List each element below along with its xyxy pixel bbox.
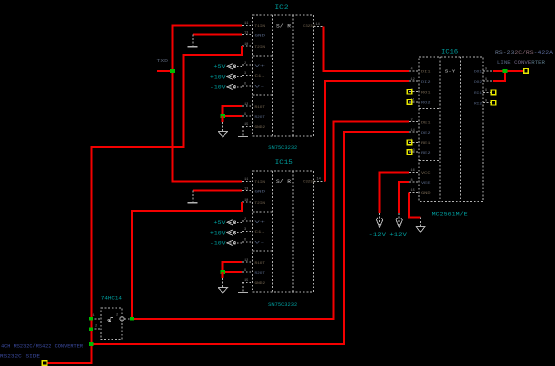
IC2 right column top text bbox=[303, 25, 316, 29]
svg-text:2: 2 bbox=[116, 314, 118, 318]
wire IC16 VEE pin to +12V arrow bbox=[399, 182, 409, 213]
IC15 pin number 12 bbox=[244, 259, 248, 263]
supply arrow +10V at IC15 bbox=[227, 230, 242, 235]
IC2 internal column divider 1 bbox=[272, 15, 274, 136]
label IC16 value MC2561M/E bbox=[432, 211, 469, 218]
ground triangle at IC15 bbox=[218, 272, 227, 293]
svg-text:+10V: +10V bbox=[210, 230, 226, 236]
supply arrow -12V bbox=[376, 213, 382, 227]
ground bar at IC2 GND2 pin bbox=[238, 126, 248, 136]
IC16 left pin stub RE1 bbox=[409, 141, 419, 143]
IC2 left pin stub R1OT bbox=[242, 105, 252, 107]
IC16 pin name RE2 bbox=[421, 152, 431, 156]
IC15 left pin stub V- bbox=[242, 241, 252, 243]
IC16 pin name DE1 bbox=[421, 121, 431, 125]
svg-text:6: 6 bbox=[244, 239, 246, 243]
IC16 right pin stub DO2 bbox=[483, 80, 493, 82]
svg-text:V-: V- bbox=[255, 86, 266, 90]
IC16 S-Y block text bbox=[445, 68, 456, 74]
label 74HC14 bbox=[101, 295, 123, 302]
svg-text:3: 3 bbox=[244, 72, 246, 76]
IC2 pin number 9 bbox=[244, 113, 246, 117]
svg-text:2: 2 bbox=[95, 325, 97, 329]
svg-text:12: 12 bbox=[244, 259, 248, 263]
junction DO1/DO2 bbox=[503, 69, 508, 73]
IC15 left pin stub C1- bbox=[242, 230, 252, 232]
wire IC15 R2OT to junction bbox=[223, 271, 243, 273]
svg-text:RI2: RI2 bbox=[474, 103, 482, 107]
IC15 left pin stub R1OT bbox=[242, 261, 252, 263]
svg-text:T2IN: T2IN bbox=[255, 46, 266, 50]
gate pin number 1 bbox=[93, 314, 95, 318]
svg-text:14: 14 bbox=[316, 23, 320, 27]
wire net DO2 (IC16 pin DO2 to DO1 net) bbox=[493, 71, 505, 81]
ground bar symbol at IC2 bbox=[188, 35, 198, 47]
svg-text:RE2: RE2 bbox=[421, 152, 431, 156]
open pad on IC16 left pin y=142.3 bbox=[407, 140, 412, 145]
svg-text:RS232C SIDE: RS232C SIDE bbox=[0, 353, 40, 359]
IC2 left pin stub T1IN bbox=[242, 24, 252, 26]
IC16 right pin stub DO1 bbox=[483, 70, 493, 72]
IC U15 box (SN75C3232 transceiver) bbox=[253, 171, 314, 292]
IC16 pin name RO1 bbox=[421, 92, 431, 96]
IC16 right pin name DO1 bbox=[474, 71, 482, 75]
IC16 pin number 13 bbox=[411, 149, 415, 153]
IC16 left pin stub DI1 bbox=[409, 70, 419, 72]
svg-text:R1OT: R1OT bbox=[255, 262, 266, 266]
wire IC16 GND pin to ground bbox=[409, 192, 421, 217]
IC16 right pin name DO2 bbox=[474, 81, 482, 85]
svg-text:RE1: RE1 bbox=[421, 142, 431, 146]
IC16 left pin stub DE2 bbox=[409, 131, 419, 133]
IC16 internal column divider 1 bbox=[439, 57, 441, 202]
IC15 pin name R2OT bbox=[255, 272, 266, 276]
supply arrow +5V at IC15 bbox=[227, 220, 242, 225]
svg-text:16: 16 bbox=[411, 169, 415, 173]
svg-text:14: 14 bbox=[317, 178, 321, 182]
IC16 right pin number RI1 bbox=[485, 89, 487, 93]
IC2 pin name C1- bbox=[255, 75, 266, 79]
svg-text:13: 13 bbox=[244, 187, 248, 191]
IC16 pin name VCC bbox=[421, 172, 431, 176]
svg-text:10: 10 bbox=[244, 43, 248, 47]
IC2 pin name T1IN bbox=[255, 25, 266, 29]
svg-text:9: 9 bbox=[485, 78, 487, 82]
IC2 right pin stub DOUT bbox=[314, 26, 324, 28]
junction RX232/RX2 bbox=[89, 342, 94, 346]
IC2 pin number 13 bbox=[244, 31, 248, 35]
IC16 left pin stub RO2 bbox=[409, 101, 419, 103]
svg-text:2: 2 bbox=[411, 118, 413, 122]
junction gate input 2 on RX232 bbox=[89, 328, 93, 332]
label IC2 value SN75C3232 bbox=[268, 145, 297, 151]
wire net RX2 (junction on RX232 to IC16 pin DE2) bbox=[91, 132, 409, 344]
svg-text:IC2: IC2 bbox=[275, 4, 290, 11]
IC15 pin number 3 bbox=[244, 228, 246, 232]
open pad on IC16 left pin y=152.2 bbox=[407, 150, 412, 155]
IC2 pin number 11 bbox=[244, 22, 248, 26]
wire IC15 R1OT to junction bbox=[223, 262, 243, 272]
net label +12V bbox=[389, 232, 407, 238]
svg-text:T2IN: T2IN bbox=[255, 202, 266, 206]
IC15 pin name V- bbox=[255, 242, 266, 246]
IC16 pin name DE2 bbox=[421, 132, 431, 136]
IC2 left pin stub V+ bbox=[242, 64, 252, 66]
IC16 left pin stub RE2 bbox=[409, 151, 419, 153]
svg-text:DI2: DI2 bbox=[421, 81, 431, 85]
ground bar symbol at IC15 bbox=[188, 191, 198, 203]
IC15 pin number 2 bbox=[244, 218, 246, 222]
IC2 pin number 10 bbox=[244, 43, 248, 47]
svg-text:9: 9 bbox=[485, 89, 487, 93]
svg-text:IC16: IC16 bbox=[441, 49, 458, 56]
IC2 pin name R2OT bbox=[255, 116, 266, 120]
open pad on IC16 left pin y=101.8 bbox=[407, 100, 412, 105]
IC16 left pin stub VEE bbox=[409, 181, 419, 183]
svg-text:11: 11 bbox=[244, 22, 248, 26]
supply arrow +12V bbox=[396, 213, 402, 227]
IC16 pin name GND bbox=[421, 192, 431, 196]
open pad on IC16 left pin y=91.7 bbox=[407, 89, 412, 94]
IC15 left pin stub R2OT bbox=[242, 271, 252, 273]
IC2 pin name V+ bbox=[255, 65, 267, 69]
gate pin number 3 bbox=[116, 314, 118, 318]
note text line 2 (bottom left) bbox=[0, 353, 40, 359]
IC16 right pin stub RI1 bbox=[483, 91, 493, 93]
svg-text:DO2: DO2 bbox=[474, 81, 482, 85]
svg-text:R2OT: R2OT bbox=[255, 272, 266, 276]
IC15 right pin number 14 bbox=[317, 178, 321, 182]
IC2 pin number 15 bbox=[244, 123, 248, 127]
IC15 left pin stub T2IN bbox=[242, 201, 252, 203]
net label +5V (IC15) bbox=[214, 220, 226, 226]
svg-text:R1OT: R1OT bbox=[255, 106, 266, 110]
net label TXD bbox=[157, 60, 169, 64]
title text line 2 (top right) bbox=[497, 60, 545, 66]
IC16 left pin stub RO1 bbox=[409, 91, 419, 93]
IC16 internal column divider 2 bbox=[460, 57, 462, 202]
IC16 pin number 3 bbox=[411, 89, 413, 93]
IC16 pin number 14 bbox=[411, 129, 415, 133]
IC2 pin name GND bbox=[255, 34, 267, 38]
IC15 pin number 13 bbox=[244, 187, 248, 191]
junction at IC15 receiver pins bbox=[220, 270, 225, 274]
svg-text:C1-: C1- bbox=[255, 75, 266, 79]
svg-text:SN75C3232: SN75C3232 bbox=[268, 302, 297, 308]
junction at 74HC14 output bbox=[130, 317, 134, 321]
IC15 pin number 6 bbox=[244, 239, 246, 243]
svg-text:RO1: RO1 bbox=[421, 92, 431, 96]
IC2 left pin stub C1- bbox=[242, 74, 252, 76]
svg-text:15: 15 bbox=[411, 189, 415, 193]
IC2 left pin stub R2OT bbox=[242, 115, 252, 117]
IC16 right pin number DO2 bbox=[485, 78, 487, 82]
IC16 pin name RO2 bbox=[421, 102, 431, 106]
net label -12V bbox=[369, 232, 387, 238]
IC16 pin name DI2 bbox=[421, 81, 431, 85]
IC15 internal column divider 2 bbox=[292, 171, 294, 292]
svg-text:C1-: C1- bbox=[255, 231, 266, 235]
svg-text:GND: GND bbox=[421, 192, 431, 196]
net label +10V (IC2) bbox=[210, 74, 226, 80]
IC16 left column row divider 1 bbox=[419, 108, 440, 110]
svg-text:+10V: +10V bbox=[210, 74, 226, 80]
IC15 pin name GND bbox=[255, 190, 267, 194]
svg-text:8: 8 bbox=[411, 179, 413, 183]
supply arrow -10V at IC15 bbox=[227, 240, 242, 245]
junction on TXD stub bbox=[170, 69, 175, 73]
wire TXD label stub bbox=[157, 70, 173, 72]
IC15 right column top text bbox=[303, 181, 316, 185]
svg-text:9: 9 bbox=[485, 68, 487, 72]
supply arrow -10V at IC2 bbox=[227, 84, 242, 89]
IC2 pin number 12 bbox=[244, 103, 248, 107]
IC16 pin number 16 bbox=[411, 169, 415, 173]
IC16 right pin number DO1 bbox=[485, 68, 487, 72]
IC2 left pin stub T2IN bbox=[242, 45, 252, 47]
net label +10V (IC15) bbox=[210, 230, 226, 236]
svg-text:GND: GND bbox=[255, 34, 267, 38]
IC15 pin number 15 bbox=[244, 279, 248, 283]
svg-text:GND2: GND2 bbox=[255, 282, 266, 286]
IC15 pin number 11 bbox=[244, 178, 248, 182]
wire net D1 (IC2 right pin to IC16 pin DI1) bbox=[323, 27, 409, 71]
wire net RX232 (IC2 pin T2IN to pad P1, taps 74HC14 inputs) bbox=[47, 46, 242, 363]
title text line 1 (top right) bbox=[495, 50, 553, 56]
svg-text:6: 6 bbox=[244, 83, 246, 87]
wire net DO1 (IC16 right pin to pad P2) bbox=[493, 70, 524, 72]
IC2 left pin stub GND bbox=[242, 34, 252, 36]
IC16 pin number 4 bbox=[411, 68, 413, 72]
label IC2 reference designator bbox=[275, 4, 290, 11]
IC15 pin name T1IN bbox=[255, 181, 266, 185]
svg-text:-10V: -10V bbox=[210, 85, 226, 91]
IC15 pin name V+ bbox=[255, 221, 267, 225]
IC15 left column row divider 2 bbox=[253, 250, 273, 252]
IC15 left pin stub GND bbox=[242, 190, 252, 192]
svg-text:12: 12 bbox=[411, 78, 415, 82]
IC16 left pin stub GND bbox=[409, 191, 419, 193]
svg-text:+5V: +5V bbox=[214, 64, 226, 70]
IC15 pin name C1- bbox=[255, 231, 266, 235]
wire net TXD (IC2 pin T1IN to IC15 pin T1IN) bbox=[173, 25, 243, 181]
svg-text:13: 13 bbox=[244, 31, 248, 35]
IC16 pin name VEE bbox=[421, 182, 431, 186]
gate input pin stub 1 bbox=[91, 318, 101, 320]
IC2 pin number 6 bbox=[244, 83, 246, 87]
gate output bubble bbox=[120, 317, 124, 321]
svg-text:R2OT: R2OT bbox=[255, 116, 266, 120]
IC15 left pin stub GND2 bbox=[242, 281, 252, 283]
svg-text:TXD: TXD bbox=[157, 60, 169, 64]
gate hysteresis mark bbox=[108, 318, 113, 322]
svg-text:-12V: -12V bbox=[369, 232, 387, 238]
svg-text:DI1: DI1 bbox=[421, 71, 431, 75]
IC16 pin number 1 bbox=[411, 139, 413, 143]
open pad on IC16 right pin y=92.3 bbox=[491, 90, 496, 95]
svg-text:DE2: DE2 bbox=[421, 132, 431, 136]
svg-text:V+: V+ bbox=[255, 221, 267, 225]
svg-text:VCC: VCC bbox=[421, 172, 431, 176]
svg-text:IC15: IC15 bbox=[275, 159, 293, 166]
svg-text:RS-232C/RS-422A: RS-232C/RS-422A bbox=[495, 50, 553, 56]
IC U2 box (SN75C3232 transceiver) bbox=[253, 15, 314, 136]
svg-text:+12V: +12V bbox=[389, 232, 407, 238]
IC16 left pin stub VCC bbox=[409, 171, 419, 173]
IC2 pin name R1OT bbox=[255, 106, 266, 110]
net label -10V (IC15) bbox=[210, 241, 226, 247]
IC15 left pin stub V+ bbox=[242, 220, 252, 222]
IC16 left pin stub DI2 bbox=[409, 80, 419, 82]
IC16 pin number 11 bbox=[411, 99, 415, 103]
IC15 pin name GND2 bbox=[255, 282, 266, 286]
IC15 pin name R1OT bbox=[255, 262, 266, 266]
IC16 right pin number RI2 bbox=[485, 100, 487, 104]
IC16 pin number 12 bbox=[411, 78, 415, 82]
gate 74HC14 box bbox=[101, 308, 122, 340]
IC2 pin number 2 bbox=[244, 62, 246, 66]
IC2 pin name T2IN bbox=[255, 46, 266, 50]
svg-text:V-: V- bbox=[255, 242, 266, 246]
svg-text:9: 9 bbox=[244, 269, 246, 273]
svg-text:SN75C3232: SN75C3232 bbox=[268, 145, 297, 151]
svg-text:9: 9 bbox=[244, 113, 246, 117]
svg-text:LINE CONVERTER: LINE CONVERTER bbox=[497, 60, 545, 66]
IC16 pin number 15 bbox=[411, 189, 415, 193]
svg-text:14: 14 bbox=[411, 129, 415, 133]
svg-text:VEE: VEE bbox=[421, 182, 431, 186]
svg-text:GND: GND bbox=[255, 190, 267, 194]
note text line 1 (bottom left) bbox=[1, 344, 83, 350]
label IC15 reference designator bbox=[275, 159, 293, 166]
svg-text:15: 15 bbox=[244, 279, 248, 283]
IC2 right pin number 14 bbox=[316, 23, 320, 27]
svg-text:RI1: RI1 bbox=[474, 92, 482, 96]
IC16 pin number 8 bbox=[411, 179, 413, 183]
svg-text:T1IN: T1IN bbox=[255, 25, 266, 29]
svg-text:4: 4 bbox=[411, 68, 413, 72]
wire IC16 VCC pin to -12V arrow bbox=[380, 172, 409, 213]
svg-text:DO1: DO1 bbox=[474, 71, 482, 75]
IC2 left pin stub V- bbox=[242, 85, 252, 87]
ground triangle at IC2 bbox=[218, 116, 227, 136]
svg-text:10: 10 bbox=[244, 199, 248, 203]
IC2 left column row divider 2 bbox=[253, 94, 273, 96]
svg-text:S/ R: S/ R bbox=[276, 179, 291, 185]
wire IC15 GND pin to ground bbox=[193, 190, 242, 192]
svg-text:MC2561M/E: MC2561M/E bbox=[432, 211, 469, 218]
svg-text:S-Y: S-Y bbox=[445, 68, 456, 74]
IC15 S/R block text bbox=[276, 179, 291, 185]
IC16 pin name DI1 bbox=[421, 71, 431, 75]
IC16 left pin stub DE1 bbox=[409, 121, 419, 123]
wire net D2 (IC15 right pin to IC16 pin DI2) bbox=[325, 81, 409, 181]
IC15 left column row divider 1 bbox=[253, 211, 273, 213]
wire IC2 R2OT to junction bbox=[223, 115, 243, 117]
IC15 pin number 10 bbox=[244, 199, 248, 203]
svg-text:9: 9 bbox=[485, 100, 487, 104]
ground triangle at IC16 bbox=[416, 217, 425, 232]
svg-text:12: 12 bbox=[244, 103, 248, 107]
supply arrow +5V at IC2 bbox=[227, 64, 242, 69]
IC16 right pin name RI1 bbox=[474, 92, 482, 96]
svg-text:74HC14: 74HC14 bbox=[101, 295, 123, 302]
IC16 right pin name RI2 bbox=[474, 103, 482, 107]
svg-text:RO2: RO2 bbox=[421, 102, 431, 106]
IC2 left pin stub GND2 bbox=[242, 125, 252, 127]
svg-text:4CH RS232C/RS422 CONVERTER: 4CH RS232C/RS422 CONVERTER bbox=[1, 344, 83, 350]
IC2 internal column divider 2 bbox=[292, 15, 294, 136]
svg-text:V+: V+ bbox=[255, 65, 267, 69]
IC U16 box (MC2561 RS-422 driver) bbox=[419, 57, 483, 202]
svg-text:2: 2 bbox=[244, 218, 246, 222]
net label -10V (IC2) bbox=[210, 85, 226, 91]
svg-text:GND2: GND2 bbox=[255, 126, 266, 130]
gate input pin stub 2 bbox=[91, 328, 101, 330]
IC16 left column row divider 2 bbox=[419, 159, 440, 161]
svg-text:S/ R: S/ R bbox=[276, 24, 291, 30]
svg-text:DE1: DE1 bbox=[421, 121, 431, 125]
IC16 pin name RE1 bbox=[421, 142, 431, 146]
junction gate input 1 on RX232 bbox=[89, 317, 93, 321]
label IC15 value SN75C3232 bbox=[268, 302, 297, 308]
IC2 S/R block text bbox=[276, 24, 291, 30]
wire net GATEOUT (74HC14 output to IC15 pin T2IN) bbox=[132, 202, 242, 319]
IC2 pin number 3 bbox=[244, 72, 246, 76]
gate pin number 2 bbox=[95, 325, 97, 329]
IC15 pin name T2IN bbox=[255, 202, 266, 206]
wire IC2 R1OT to junction bbox=[223, 106, 243, 116]
open pad on IC16 right pin y=102.7 bbox=[491, 100, 496, 105]
wire net GATEOUT (74HC14 output to IC16 pin DE1) bbox=[133, 122, 409, 319]
gate output pin stub bbox=[124, 318, 132, 320]
IC16 pin number 2 bbox=[411, 118, 413, 122]
IC15 right pin stub DOUT bbox=[314, 180, 326, 182]
svg-text:+5V: +5V bbox=[214, 220, 226, 226]
IC2 left column row divider 1 bbox=[253, 55, 273, 57]
ground bar at IC15 GND2 pin bbox=[238, 282, 248, 292]
svg-text:-10V: -10V bbox=[210, 241, 226, 247]
wire IC2 GND pin to ground bbox=[193, 34, 242, 36]
IC15 pin number 9 bbox=[244, 269, 246, 273]
pad P2 (RS-422 output) bbox=[524, 69, 529, 74]
svg-text:T1IN: T1IN bbox=[255, 181, 266, 185]
IC2 pin name V- bbox=[255, 86, 266, 90]
net label +5V (IC2) bbox=[214, 64, 226, 70]
svg-text:15: 15 bbox=[244, 123, 248, 127]
IC16 right pin stub RI2 bbox=[483, 102, 493, 104]
IC15 left pin stub T1IN bbox=[242, 180, 252, 182]
supply arrow +10V at IC2 bbox=[227, 74, 242, 79]
pad P1 (RS-232 input, bottom left) bbox=[42, 361, 47, 366]
svg-text:2: 2 bbox=[244, 62, 246, 66]
label IC16 reference designator bbox=[441, 49, 458, 56]
IC2 pin name GND2 bbox=[255, 126, 266, 130]
svg-text:11: 11 bbox=[244, 178, 248, 182]
junction at IC2 receiver pins bbox=[220, 114, 225, 118]
svg-text:3: 3 bbox=[244, 228, 246, 232]
IC15 internal column divider 1 bbox=[272, 171, 274, 292]
